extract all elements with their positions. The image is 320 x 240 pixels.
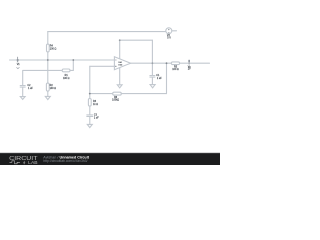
- wire op-amp output: [131, 62, 210, 64]
- node feedback corner: [119, 39, 121, 41]
- op-amp OA1 triangle: [114, 57, 130, 70]
- left flag labels: [17, 63, 21, 66]
- svg-text:1 uF: 1 uF: [28, 87, 33, 90]
- label R5 output: [172, 65, 179, 71]
- pin - (inverting, top): [115, 59, 116, 61]
- logo ground glyph: [23, 161, 25, 164]
- right flag terminal: [188, 60, 190, 65]
- wire upper left to op-amp + input: [10, 59, 115, 61]
- label C3 bottom cap: [94, 114, 99, 120]
- svg-text:1k Ω: 1k Ω: [93, 103, 98, 106]
- pin + (non-inverting, bottom): [115, 66, 116, 67]
- wire feedback top corner: [120, 40, 153, 58]
- wire op-amp minus input: [90, 65, 115, 67]
- node output/riser: [166, 62, 168, 64]
- svg-text:1V: 1V: [188, 67, 191, 70]
- resistor R1 pill on lower run: [62, 69, 70, 72]
- svg-text:http://circuitlab.com/c/4zv3h3: http://circuitlab.com/c/4zv3h3/: [43, 159, 87, 163]
- wire V2 right stub: [172, 30, 177, 32]
- svg-text:100 Ω: 100 Ω: [172, 68, 179, 71]
- ground divider: [45, 96, 50, 99]
- wire minus-branch vertical: [89, 66, 91, 98]
- wire corner lower-left + C2 branch upper: [23, 70, 63, 85]
- right flag labels: [188, 65, 191, 70]
- label R6 potentiometer: [112, 96, 119, 102]
- wire op-amp V- stub to pot wiper: [119, 68, 121, 85]
- wire output riser: [166, 63, 168, 93]
- left flag terminal: [17, 57, 19, 63]
- wire riser to upper wire: [72, 60, 74, 70]
- label R2 divider bottom: [50, 84, 57, 90]
- svg-text:1 uF: 1 uF: [157, 77, 162, 80]
- potentiometer wiper arrow: [117, 85, 122, 88]
- resistor R5 pill on output: [171, 62, 179, 65]
- logo waveform: [10, 161, 20, 164]
- svg-text:LAB: LAB: [28, 160, 37, 165]
- label C2 left cap: [27, 84, 33, 90]
- wire cap to ground: [22, 87, 24, 96]
- wire R3 to C3: [89, 106, 91, 115]
- wire feedback down to cap C1: [151, 40, 153, 75]
- wire R1 right to riser: [70, 69, 73, 71]
- svg-text:100kΩ: 100kΩ: [112, 99, 119, 102]
- wire divider vertical upper: [47, 32, 49, 44]
- node riser/+wire: [72, 59, 74, 61]
- label R1 lower pill: [63, 74, 70, 80]
- node pot-left junction: [89, 93, 91, 95]
- label V2 source: [167, 34, 171, 39]
- label C1 right cap: [156, 74, 162, 80]
- svg-text:100 Ω: 100 Ω: [50, 47, 57, 50]
- op-amp input polarity marks: [115, 60, 116, 67]
- svg-text:5 V: 5 V: [167, 37, 171, 40]
- component labels: [27, 34, 179, 120]
- wire top feedback rail: [48, 31, 166, 33]
- capacitor C3 plates: [87, 115, 93, 117]
- V2 plus mark: [168, 29, 169, 30]
- V2 source polarity marks: [168, 29, 169, 32]
- V2 minus mark: [168, 31, 169, 33]
- svg-text:100 Ω: 100 Ω: [50, 87, 57, 90]
- wire divider vertical middle: [47, 52, 49, 83]
- svg-text:100 Ω: 100 Ω: [63, 77, 70, 80]
- resistor R3 (bottom branch): [88, 99, 91, 107]
- resistor R2 (divider bottom): [46, 83, 49, 91]
- node divider/+wire: [47, 59, 49, 61]
- label R3 bottom branch: [93, 100, 98, 106]
- potentiometer body: [113, 92, 122, 95]
- wire C3 to ground: [89, 117, 91, 125]
- wire pot right to riser: [121, 93, 166, 95]
- label R4 divider top: [50, 44, 57, 50]
- wire divider to ground: [47, 91, 49, 96]
- voltage source V2 circle: [166, 28, 172, 34]
- svg-text:1 uF: 1 uF: [94, 117, 99, 120]
- capacitor C1 plates: [150, 76, 155, 78]
- ground C1: [150, 85, 155, 88]
- node output/C1: [152, 62, 154, 64]
- junction dots: [47, 39, 168, 94]
- left flag chevron: [16, 67, 19, 69]
- wire junction to potentiometer left: [90, 93, 113, 95]
- ground C2: [20, 97, 25, 100]
- logo CIRCUIT: [9, 156, 38, 162]
- resistor R4 (divider top): [47, 44, 50, 52]
- op-amp label OA1: [118, 61, 123, 66]
- footer bar: [0, 153, 220, 165]
- ground C3: [87, 124, 92, 127]
- capacitor C2 plates: [20, 86, 25, 88]
- wire C1 to ground: [151, 77, 153, 84]
